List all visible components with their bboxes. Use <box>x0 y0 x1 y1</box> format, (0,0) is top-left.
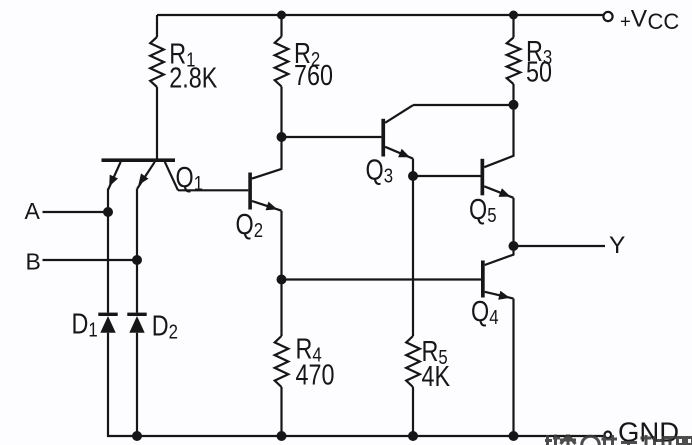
label R1 value 2.8K <box>169 37 218 94</box>
wire Q4 emitter down <box>512 299 514 436</box>
wire Q1 emitter2 to D2 <box>136 189 138 313</box>
node A junction <box>103 207 113 217</box>
label Q1 <box>176 161 204 195</box>
label Q2 <box>236 208 264 242</box>
resistor R5 <box>406 336 420 387</box>
svg-text:CC: CC <box>648 9 680 34</box>
label R2 value 760 <box>294 37 333 92</box>
transistor Q5 <box>481 105 514 198</box>
svg-text:4: 4 <box>489 305 498 328</box>
watermark text (cut off at bottom edge) <box>545 435 692 445</box>
label R5 value 4K <box>422 335 451 393</box>
label D1 <box>72 307 98 341</box>
wire R5 bottom lead <box>412 387 414 436</box>
node R3 / Q3 collector / Q5 collector junction <box>509 100 519 110</box>
svg-text:D: D <box>152 309 169 342</box>
label R3 value 50 <box>526 35 552 88</box>
wire R5 top lead <box>412 176 414 336</box>
terminal GND <box>605 432 612 439</box>
transistor Q4 <box>481 246 514 300</box>
wire Q3 base from node <box>282 136 382 138</box>
svg-text:5: 5 <box>487 203 496 226</box>
svg-text:+: + <box>620 10 631 31</box>
wire D2 anode to ground rail <box>136 333 138 436</box>
label Q5 <box>469 193 497 227</box>
svg-text:V: V <box>631 5 648 32</box>
wire input A <box>43 211 109 213</box>
wire R3 top lead <box>512 15 514 38</box>
svg-text:2.8K: 2.8K <box>169 61 218 94</box>
svg-text:B: B <box>26 249 41 275</box>
svg-text:2: 2 <box>254 218 263 241</box>
resistor R2 <box>275 37 289 87</box>
wire R1 bottom lead to Q1 base <box>156 87 158 159</box>
wire R1 top lead <box>156 15 158 37</box>
svg-text:3: 3 <box>384 164 393 187</box>
wire R2 bottom lead to node <box>280 87 282 138</box>
svg-text:A: A <box>25 198 41 224</box>
wire R4 top lead <box>280 280 282 337</box>
wire VCC top rail <box>157 14 604 16</box>
wire Q5 base from node <box>413 175 481 177</box>
label Q3 <box>366 153 394 187</box>
svg-text:Q: Q <box>366 153 384 186</box>
node R5 / ground rail junction <box>408 431 418 441</box>
label R4 value 470 <box>296 332 335 391</box>
label D2 <box>152 309 178 343</box>
transistor Q1 (multi-emitter) <box>102 158 179 190</box>
node Q3 emitter / Q5 base / R5 junction <box>408 171 418 181</box>
wire input B <box>43 259 138 261</box>
wire R2 top lead <box>280 15 282 37</box>
svg-text:50: 50 <box>526 55 552 88</box>
wire Q5 emitter down to output node <box>512 198 514 246</box>
label +VCC <box>620 5 679 34</box>
svg-text:Q: Q <box>471 295 489 328</box>
wire Q3 collector to R3 node <box>413 104 514 106</box>
diode D1 <box>98 313 117 333</box>
node B junction <box>132 255 142 265</box>
resistor R4 <box>275 336 289 387</box>
node Q4 emitter / ground rail junction <box>509 431 519 441</box>
wire Q4 base from node <box>282 278 482 280</box>
transistor Q3 <box>381 105 413 158</box>
wire Q1 collector to Q2 base <box>178 189 248 191</box>
svg-text:2: 2 <box>169 320 178 343</box>
label Q4 <box>471 295 499 329</box>
resistor R1 <box>150 37 164 87</box>
wire Q3 emitter down <box>412 159 414 176</box>
wire D1 anode to ground rail <box>107 333 109 437</box>
resistor R3 <box>507 38 521 85</box>
node output Y junction <box>509 241 519 251</box>
svg-text:Q: Q <box>176 161 194 194</box>
node top rail / R3 junction <box>509 11 518 20</box>
wire Q1 emitter1 to D1 <box>107 189 109 313</box>
svg-text:D: D <box>72 307 89 340</box>
node top rail / R2 junction <box>277 11 286 20</box>
node Q2 collector / R2 junction <box>277 132 287 142</box>
wire R4 bottom lead <box>280 387 282 436</box>
svg-text:Y: Y <box>609 232 625 259</box>
svg-text:1: 1 <box>88 318 97 341</box>
node D2 / ground rail junction <box>132 431 142 441</box>
node Q2 emitter / R4 / Q4 base junction <box>277 275 287 285</box>
wire output Y <box>514 245 606 247</box>
diode D2 <box>127 313 146 333</box>
svg-text:4K: 4K <box>422 360 451 393</box>
wire Q2 emitter down <box>280 211 282 280</box>
node R4 / ground rail junction <box>277 431 287 441</box>
svg-text:Q: Q <box>236 208 254 241</box>
svg-text:760: 760 <box>294 59 333 92</box>
wire R3 bottom lead to node <box>512 84 514 105</box>
wire ground rail <box>107 435 605 437</box>
svg-text:470: 470 <box>296 358 335 391</box>
transistor Q2 <box>248 137 281 211</box>
svg-text:Q: Q <box>469 193 487 226</box>
terminal +VCC <box>603 12 612 21</box>
